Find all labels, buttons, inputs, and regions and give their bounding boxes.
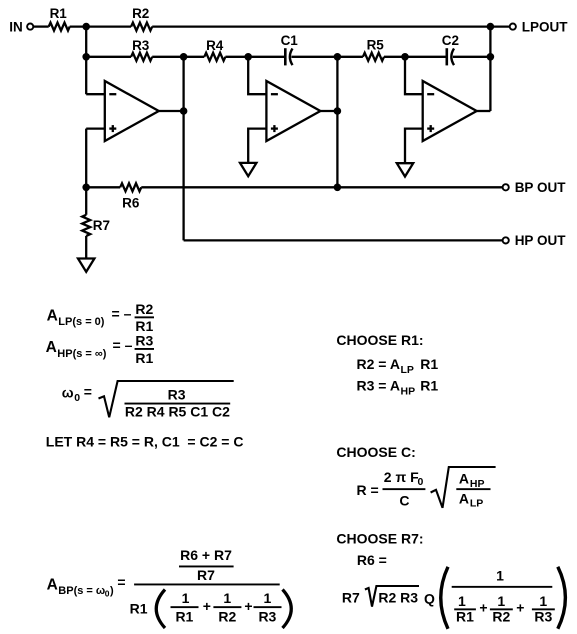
node D junction (R5/C2/U3 inverting) bbox=[401, 53, 409, 61]
label BP OUT bbox=[515, 180, 567, 195]
svg-text:0: 0 bbox=[418, 476, 424, 488]
wire node A down to op-amp U1 inverting input bbox=[85, 27, 87, 95]
formula CHOOSE R1 block bbox=[336, 332, 438, 397]
wire C1 to BP node bbox=[291, 56, 363, 58]
node BP junction (C1/R5/U2 output) bbox=[334, 53, 342, 61]
svg-text:LP: LP bbox=[470, 498, 483, 510]
svg-text:R3: R3 bbox=[132, 38, 150, 53]
svg-text:HP: HP bbox=[401, 385, 416, 397]
svg-text:R =: R = bbox=[357, 482, 379, 498]
formula omega0 equation bbox=[62, 381, 234, 420]
label C2 bbox=[442, 33, 459, 48]
svg-text:BP(s = ω: BP(s = ω bbox=[58, 585, 105, 597]
svg-text:R2 R3: R2 R3 bbox=[378, 590, 418, 606]
svg-text:R3: R3 bbox=[135, 333, 153, 349]
resistor R3 bbox=[131, 53, 152, 61]
node C junction (R4/C1/U2 inverting) bbox=[244, 53, 252, 61]
svg-text:R1: R1 bbox=[175, 608, 193, 624]
wire R4 to C1 bbox=[225, 56, 285, 58]
svg-text:A: A bbox=[47, 308, 58, 325]
svg-text:2 π F: 2 π F bbox=[384, 469, 419, 485]
svg-text:ω: ω bbox=[62, 385, 74, 401]
wire R3 to HP node bbox=[152, 56, 204, 58]
svg-text:R3 = A: R3 = A bbox=[357, 377, 400, 393]
resistor R2 bbox=[131, 23, 152, 31]
capacitor C1 bbox=[285, 48, 292, 65]
svg-text:R4: R4 bbox=[206, 38, 224, 53]
wire LP vertical rail bbox=[489, 27, 491, 111]
op-amp U1 bbox=[105, 81, 159, 141]
svg-text:1: 1 bbox=[223, 590, 231, 606]
svg-text:R3: R3 bbox=[258, 608, 276, 624]
svg-text:CHOOSE R1:: CHOOSE R1: bbox=[336, 332, 423, 348]
svg-text:= –: = – bbox=[113, 337, 133, 353]
svg-text:R2: R2 bbox=[218, 608, 236, 624]
wire HP line bbox=[184, 239, 503, 241]
op-amp U3 bbox=[423, 81, 477, 141]
wire BP line left segment bbox=[86, 186, 120, 188]
label R5 bbox=[367, 38, 385, 53]
wire U1 plus input down to R6/R7 node bbox=[85, 129, 87, 188]
wire U1 non-inverting input bbox=[86, 127, 105, 129]
svg-text:R7: R7 bbox=[342, 590, 360, 606]
node HP junction bbox=[180, 53, 188, 61]
wire U3 non-inverting input to ground bbox=[405, 129, 423, 164]
svg-text:R2: R2 bbox=[132, 6, 149, 21]
wire R2 to LP node bbox=[152, 25, 490, 27]
resistor R7 bbox=[82, 215, 90, 236]
svg-text:R7: R7 bbox=[197, 567, 215, 583]
svg-text:LPOUT: LPOUT bbox=[522, 19, 569, 34]
wire U2 output bbox=[320, 110, 337, 112]
node BP line junction bbox=[334, 184, 342, 192]
svg-text:1: 1 bbox=[539, 593, 547, 609]
wire R5 to C2 bbox=[384, 56, 447, 58]
svg-text:R3: R3 bbox=[534, 608, 552, 624]
wire U1 output bbox=[159, 110, 184, 112]
svg-text:CHOOSE R7:: CHOOSE R7: bbox=[336, 530, 423, 546]
svg-text:R1: R1 bbox=[130, 601, 148, 617]
svg-text:C1: C1 bbox=[281, 33, 299, 48]
svg-text:R2 = A: R2 = A bbox=[357, 356, 400, 372]
svg-text:=: = bbox=[117, 574, 125, 590]
ground U3 bbox=[397, 163, 413, 176]
svg-text:R3: R3 bbox=[168, 386, 186, 402]
wire R1 to node A bbox=[70, 25, 131, 27]
terminal BP OUT bbox=[503, 184, 509, 190]
svg-text:+: + bbox=[516, 599, 524, 615]
svg-text:=: = bbox=[84, 384, 92, 400]
svg-text:0: 0 bbox=[74, 392, 80, 404]
svg-text:1: 1 bbox=[497, 593, 505, 609]
svg-text:1: 1 bbox=[496, 568, 504, 584]
svg-text:LP(s = 0): LP(s = 0) bbox=[58, 316, 104, 328]
node B junction (R3 left) bbox=[82, 53, 90, 61]
label LPOUT bbox=[522, 19, 569, 34]
svg-text:R6: R6 bbox=[122, 195, 140, 210]
svg-text:A: A bbox=[459, 471, 469, 487]
label C1 bbox=[281, 33, 299, 48]
svg-text:1: 1 bbox=[264, 590, 272, 606]
ground U2 bbox=[240, 163, 256, 176]
resistor R1 bbox=[49, 23, 70, 31]
wire node D down to U3 inverting input bbox=[405, 57, 423, 94]
node E junction (C2 right) bbox=[487, 53, 495, 61]
svg-text:R2: R2 bbox=[135, 301, 153, 317]
terminal LPOUT bbox=[510, 24, 516, 30]
svg-text:R6 =: R6 = bbox=[357, 552, 387, 568]
wire R7 bottom lead bbox=[85, 236, 87, 259]
svg-text:LP: LP bbox=[401, 364, 414, 376]
formula ALP gain equation bbox=[47, 301, 154, 334]
formula CHOOSE R7 block bbox=[336, 530, 565, 628]
svg-text:R1: R1 bbox=[420, 377, 438, 393]
label R7 bbox=[93, 218, 110, 233]
svg-text:1: 1 bbox=[182, 590, 190, 606]
svg-text:CHOOSE C:: CHOOSE C: bbox=[336, 444, 415, 460]
svg-text:+: + bbox=[203, 598, 211, 614]
ground R7 bbox=[78, 259, 94, 272]
svg-text:R1: R1 bbox=[50, 6, 68, 21]
svg-text:BP OUT: BP OUT bbox=[515, 180, 567, 195]
svg-text:C2: C2 bbox=[442, 33, 459, 48]
wire node C down to U2 inverting input bbox=[248, 57, 266, 94]
svg-text:C: C bbox=[399, 492, 409, 508]
svg-text:Q: Q bbox=[424, 591, 435, 607]
svg-text:HP(s = ∞): HP(s = ∞) bbox=[57, 348, 106, 360]
svg-text:+: + bbox=[244, 598, 252, 614]
svg-text:A: A bbox=[459, 490, 469, 506]
svg-text:R1: R1 bbox=[456, 608, 474, 624]
terminal IN bbox=[27, 24, 33, 30]
formula AHP gain equation bbox=[46, 333, 154, 366]
wire BP vertical rail bbox=[336, 57, 338, 188]
svg-text:R1: R1 bbox=[420, 356, 438, 372]
svg-text:A: A bbox=[47, 576, 58, 593]
node U1 output junction bbox=[180, 107, 188, 115]
wire HP vertical rail bbox=[182, 57, 184, 241]
node U2 output junction bbox=[334, 107, 342, 115]
formula ABP gain equation bbox=[47, 547, 292, 628]
label R6 bbox=[122, 195, 140, 210]
svg-text:R5: R5 bbox=[367, 38, 385, 53]
label IN bbox=[9, 19, 23, 34]
wire U2 non-inverting input to ground bbox=[248, 129, 266, 163]
label R1 bbox=[50, 6, 68, 21]
terminal HP OUT bbox=[503, 237, 509, 243]
svg-text:R2 R4 R5 C1 C2: R2 R4 R5 C1 C2 bbox=[125, 404, 230, 420]
svg-text:R7: R7 bbox=[93, 218, 110, 233]
svg-text:R2: R2 bbox=[492, 608, 510, 624]
svg-text:R6 + R7: R6 + R7 bbox=[180, 547, 232, 563]
node LP junction bbox=[487, 23, 495, 31]
svg-text:1: 1 bbox=[458, 593, 466, 609]
wire BP line right segment bbox=[141, 186, 502, 188]
wire R7 top lead bbox=[85, 187, 87, 215]
label HP OUT bbox=[515, 233, 567, 248]
wire node B to R3 bbox=[86, 56, 131, 58]
svg-text:R1: R1 bbox=[135, 318, 153, 334]
node A junction bbox=[82, 23, 90, 31]
op-amp U2 bbox=[266, 81, 320, 141]
resistor R5 bbox=[363, 53, 384, 61]
wire C2 to LP node vertical bbox=[453, 56, 491, 58]
formula CHOOSE C block bbox=[336, 444, 495, 510]
svg-text:R1: R1 bbox=[135, 350, 153, 366]
svg-text:LET R4 = R5 = R, C1 = C2 = C: LET R4 = R5 = R, C1 = C2 = C bbox=[46, 433, 244, 449]
formula LET condition line bbox=[46, 433, 244, 449]
label R3 bbox=[132, 38, 150, 53]
resistor R6 bbox=[120, 183, 141, 191]
node R6/R7 junction bbox=[82, 184, 90, 192]
svg-text:= –: = – bbox=[112, 306, 132, 322]
resistor R4 bbox=[204, 53, 225, 61]
svg-text:IN: IN bbox=[9, 19, 23, 34]
wire U1 inverting input bbox=[86, 93, 105, 95]
capacitor C2 bbox=[447, 48, 454, 65]
svg-text:): ) bbox=[110, 585, 114, 597]
wire U3 output bbox=[477, 110, 491, 112]
svg-text:A: A bbox=[46, 339, 57, 356]
svg-text:HP OUT: HP OUT bbox=[515, 233, 567, 248]
wire LP node to LPOUT terminal bbox=[490, 25, 509, 27]
svg-text:+: + bbox=[479, 599, 487, 615]
wire IN to R1 bbox=[34, 25, 49, 27]
label R2 bbox=[132, 6, 149, 21]
label R4 bbox=[206, 38, 224, 53]
